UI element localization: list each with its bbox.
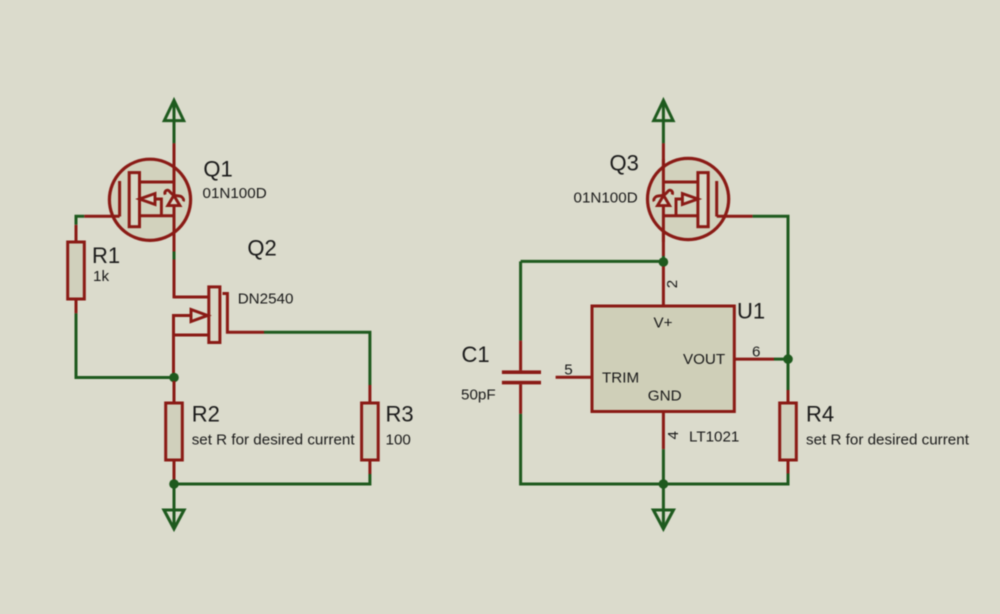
svg-text:R1: R1 — [92, 243, 120, 268]
svg-text:Q2: Q2 — [247, 235, 276, 260]
svg-text:VOUT: VOUT — [683, 351, 725, 368]
svg-text:50pF: 50pF — [461, 387, 496, 404]
svg-text:01N100D: 01N100D — [574, 189, 638, 206]
svg-text:GND: GND — [648, 388, 682, 405]
svg-text:Q1: Q1 — [203, 157, 232, 182]
svg-text:01N100D: 01N100D — [203, 185, 267, 202]
svg-text:6: 6 — [752, 344, 760, 361]
svg-text:2: 2 — [664, 280, 681, 288]
svg-text:5: 5 — [564, 362, 572, 379]
svg-text:R3: R3 — [386, 402, 414, 427]
svg-text:LT1021: LT1021 — [689, 429, 739, 446]
svg-text:V+: V+ — [654, 315, 673, 332]
svg-text:Q3: Q3 — [610, 151, 639, 176]
svg-text:U1: U1 — [737, 299, 765, 324]
svg-text:R4: R4 — [806, 402, 834, 427]
svg-text:1k: 1k — [93, 268, 109, 285]
svg-text:100: 100 — [386, 431, 411, 448]
svg-text:4: 4 — [665, 431, 682, 439]
svg-text:R2: R2 — [192, 402, 220, 427]
svg-text:set R for desired current: set R for desired current — [806, 432, 970, 449]
svg-text:C1: C1 — [462, 342, 490, 367]
svg-text:set R for desired current: set R for desired current — [192, 432, 356, 449]
svg-text:TRIM: TRIM — [602, 369, 639, 386]
svg-text:DN2540: DN2540 — [238, 291, 294, 308]
